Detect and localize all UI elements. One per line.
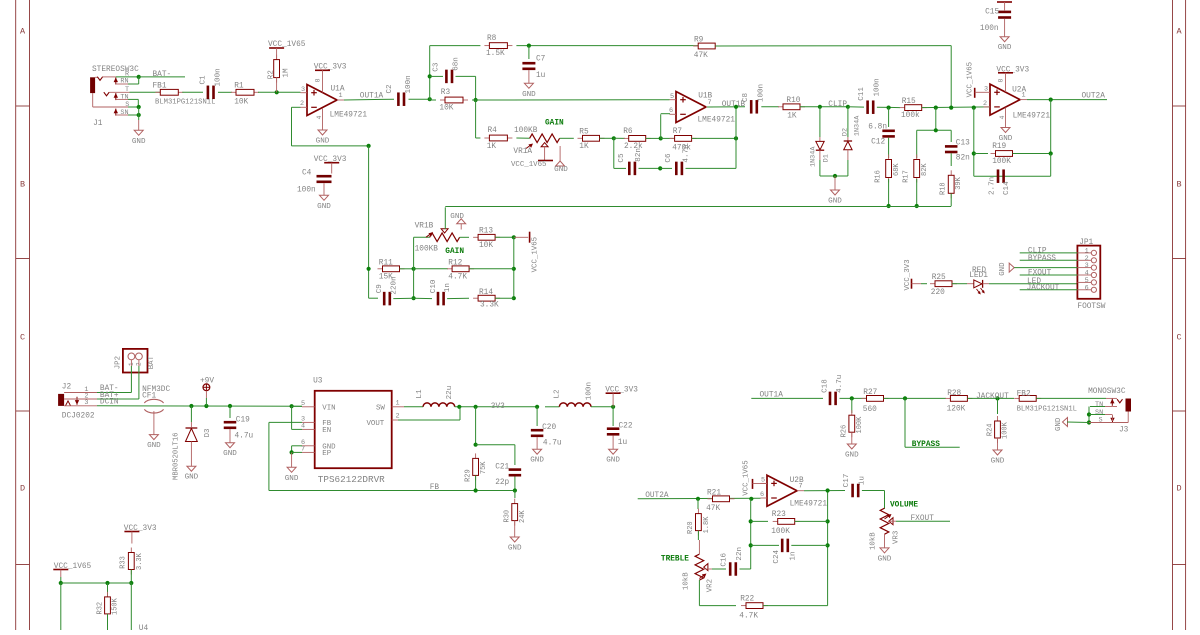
svg-text:3: 3 <box>84 399 88 407</box>
svg-text:R33: R33 <box>119 556 127 569</box>
svg-text:SN: SN <box>120 109 128 117</box>
svg-text:1u: 1u <box>859 476 867 485</box>
svg-text:STEREOSW3C: STEREOSW3C <box>92 66 139 74</box>
svg-text:3.3K: 3.3K <box>480 302 499 310</box>
svg-text:C8: C8 <box>742 93 750 103</box>
svg-text:D2: D2 <box>842 128 850 136</box>
svg-text:OUT2A: OUT2A <box>645 492 669 500</box>
svg-text:100K: 100K <box>1002 421 1010 439</box>
svg-text:100k: 100k <box>901 112 920 120</box>
svg-text:100KB: 100KB <box>415 246 439 254</box>
svg-text:GND: GND <box>132 138 146 146</box>
svg-text:JACKOUT: JACKOUT <box>1027 284 1060 292</box>
svg-text:LME49721: LME49721 <box>790 501 828 509</box>
svg-text:R8: R8 <box>487 35 497 43</box>
svg-text:560: 560 <box>863 406 877 414</box>
svg-text:R16: R16 <box>874 170 882 183</box>
svg-text:R27: R27 <box>863 389 877 397</box>
svg-text:U2A: U2A <box>1012 87 1026 95</box>
svg-text:1N34A: 1N34A <box>810 146 818 167</box>
svg-text:FXOUT: FXOUT <box>1028 270 1052 278</box>
svg-text:82n: 82n <box>956 154 970 162</box>
svg-text:GND: GND <box>845 452 859 460</box>
svg-text:2.7n: 2.7n <box>988 177 996 195</box>
svg-text:VCC_1V65: VCC_1V65 <box>967 62 975 97</box>
svg-text:LME49721: LME49721 <box>330 111 368 119</box>
svg-text:GND: GND <box>999 135 1013 143</box>
svg-text:100n: 100n <box>405 75 413 93</box>
svg-text:C: C <box>20 333 25 343</box>
svg-text:1.5K: 1.5K <box>486 50 505 58</box>
svg-text:C11: C11 <box>858 87 866 101</box>
svg-text:R22: R22 <box>740 595 754 603</box>
svg-text:R4: R4 <box>488 127 498 135</box>
svg-text:R15: R15 <box>902 98 916 106</box>
svg-text:A: A <box>20 27 26 37</box>
svg-text:100n: 100n <box>215 68 223 86</box>
svg-text:U2B: U2B <box>790 477 804 485</box>
svg-text:LED1: LED1 <box>969 272 988 280</box>
svg-text:R2: R2 <box>268 70 276 80</box>
svg-text:10kB: 10kB <box>870 532 878 550</box>
svg-text:GAIN: GAIN <box>445 248 464 256</box>
svg-text:22n: 22n <box>736 547 744 561</box>
svg-text:FB: FB <box>430 484 440 492</box>
svg-text:C4: C4 <box>302 169 312 177</box>
svg-text:BYPASS: BYPASS <box>912 441 940 449</box>
svg-text:FB2: FB2 <box>1017 391 1031 399</box>
svg-text:JP2: JP2 <box>115 356 123 369</box>
svg-text:4.7K: 4.7K <box>448 273 467 281</box>
svg-text:8: 8 <box>315 78 322 82</box>
svg-text:R18: R18 <box>940 182 948 195</box>
svg-text:GND: GND <box>1055 417 1063 431</box>
svg-text:U1B: U1B <box>698 92 712 100</box>
svg-text:10K: 10K <box>234 98 248 106</box>
svg-text:VCC_1V65: VCC_1V65 <box>511 161 546 169</box>
svg-text:GND: GND <box>316 138 330 146</box>
svg-text:GAIN: GAIN <box>545 119 564 127</box>
svg-text:R25: R25 <box>932 274 946 282</box>
svg-text:6.8n: 6.8n <box>868 124 887 132</box>
svg-text:U3: U3 <box>313 377 323 385</box>
svg-text:C21: C21 <box>495 463 509 471</box>
svg-text:C13: C13 <box>956 140 970 148</box>
svg-text:1.8K: 1.8K <box>703 516 711 534</box>
svg-text:GND: GND <box>147 442 161 450</box>
svg-text:R17: R17 <box>902 170 910 183</box>
svg-text:GND: GND <box>223 450 237 458</box>
svg-text:BAT-: BAT- <box>153 71 172 79</box>
svg-text:R6: R6 <box>623 128 633 136</box>
svg-text:100n: 100n <box>874 78 882 96</box>
svg-text:D: D <box>1176 484 1181 494</box>
svg-text:L1: L1 <box>416 389 424 399</box>
svg-text:1u: 1u <box>536 72 546 80</box>
svg-text:1K: 1K <box>487 143 497 151</box>
svg-text:R7: R7 <box>673 128 683 136</box>
svg-text:C1: C1 <box>200 75 208 85</box>
svg-text:FB1: FB1 <box>153 83 167 91</box>
svg-text:D1: D1 <box>823 154 831 162</box>
svg-text:BYPASS: BYPASS <box>1028 255 1056 263</box>
svg-text:8: 8 <box>998 79 1005 83</box>
svg-text:VCC_1V65: VCC_1V65 <box>532 237 540 272</box>
svg-text:LME49721: LME49721 <box>698 117 736 125</box>
svg-text:VCC_3V3: VCC_3V3 <box>904 259 912 290</box>
svg-text:VOLUME: VOLUME <box>890 501 918 509</box>
svg-text:FXOUT: FXOUT <box>911 515 935 523</box>
svg-text:68K: 68K <box>893 163 901 176</box>
svg-text:C6: C6 <box>665 153 673 163</box>
svg-text:220: 220 <box>931 289 945 297</box>
svg-text:100KB: 100KB <box>514 127 538 135</box>
svg-text:10kB: 10kB <box>682 572 690 590</box>
svg-text:DCIN: DCIN <box>100 399 119 407</box>
svg-text:220n: 220n <box>390 276 398 294</box>
svg-text:C14: C14 <box>1003 181 1011 195</box>
svg-text:VR2: VR2 <box>707 579 715 592</box>
svg-text:22p: 22p <box>495 479 509 487</box>
svg-text:75K: 75K <box>480 461 488 474</box>
svg-text:U4: U4 <box>139 625 149 630</box>
svg-text:C: C <box>1176 333 1181 343</box>
svg-text:C15: C15 <box>985 9 999 17</box>
svg-text:4: 4 <box>999 116 1006 120</box>
svg-text:R28: R28 <box>947 390 961 398</box>
svg-text:C20: C20 <box>542 424 556 432</box>
svg-text:C19: C19 <box>236 417 250 425</box>
svg-text:GND: GND <box>317 203 331 211</box>
svg-text:OUT2A: OUT2A <box>1082 93 1106 101</box>
svg-text:100n: 100n <box>586 382 594 400</box>
svg-text:C10: C10 <box>430 279 438 293</box>
svg-text:SW: SW <box>376 404 385 412</box>
svg-text:R9: R9 <box>694 36 704 44</box>
svg-text:GND: GND <box>508 545 522 553</box>
svg-text:1n: 1n <box>444 283 452 292</box>
svg-text:6: 6 <box>760 491 764 499</box>
svg-text:2: 2 <box>396 413 400 421</box>
svg-text:R26: R26 <box>841 425 849 438</box>
svg-text:5: 5 <box>670 93 674 101</box>
svg-text:CLIP: CLIP <box>828 101 847 109</box>
svg-text:100n: 100n <box>757 84 765 102</box>
svg-text:100n: 100n <box>980 25 999 33</box>
svg-text:1M: 1M <box>283 68 291 78</box>
svg-text:MONOSW3C: MONOSW3C <box>1088 388 1126 396</box>
svg-text:3: 3 <box>984 86 988 94</box>
svg-text:VCC_1V65: VCC_1V65 <box>743 460 751 495</box>
svg-text:1K: 1K <box>787 112 797 120</box>
svg-text:FOOTSW: FOOTSW <box>1077 303 1105 311</box>
svg-text:GND: GND <box>828 198 842 206</box>
svg-text:C3: C3 <box>433 62 441 72</box>
svg-text:S: S <box>1099 416 1103 424</box>
svg-text:1N34A: 1N34A <box>853 115 861 136</box>
svg-text:A: A <box>1176 27 1182 37</box>
svg-text:R29: R29 <box>465 469 473 482</box>
svg-text:R23: R23 <box>772 511 786 519</box>
svg-text:BLM31PG121SN1L: BLM31PG121SN1L <box>1017 406 1077 414</box>
svg-text:TN: TN <box>1095 401 1103 409</box>
svg-text:10K: 10K <box>479 242 493 250</box>
svg-text:EN: EN <box>322 427 331 435</box>
svg-text:120K: 120K <box>947 406 966 414</box>
svg-text:82K: 82K <box>921 163 929 176</box>
svg-text:R13: R13 <box>479 228 493 236</box>
svg-text:39K: 39K <box>955 176 963 189</box>
svg-text:GND: GND <box>530 457 544 465</box>
svg-text:OUT1A: OUT1A <box>360 92 384 100</box>
svg-text:3V3: 3V3 <box>491 403 505 411</box>
svg-text:D3: D3 <box>204 429 212 438</box>
svg-text:DCJ0202: DCJ0202 <box>62 413 95 421</box>
svg-text:4.7u: 4.7u <box>543 440 562 448</box>
svg-text:B: B <box>1176 180 1181 190</box>
svg-text:C18: C18 <box>822 379 830 393</box>
svg-text:GND: GND <box>554 166 568 174</box>
svg-text:10K: 10K <box>439 105 453 113</box>
svg-text:100n: 100n <box>297 186 316 194</box>
svg-text:R3: R3 <box>441 89 451 97</box>
svg-text:R32: R32 <box>96 602 104 615</box>
svg-text:R1: R1 <box>234 83 244 91</box>
svg-text:1K: 1K <box>579 143 589 151</box>
svg-text:GND: GND <box>285 475 299 483</box>
svg-text:GND: GND <box>185 474 199 482</box>
svg-text:100K: 100K <box>992 158 1011 166</box>
svg-text:OUT1A: OUT1A <box>760 392 784 400</box>
svg-text:68n: 68n <box>453 57 461 71</box>
svg-text:MBR0520LT16: MBR0520LT16 <box>173 433 181 480</box>
svg-text:J3: J3 <box>1119 427 1129 435</box>
svg-text:4: 4 <box>316 116 323 120</box>
svg-text:U1A: U1A <box>331 86 345 94</box>
svg-text:GND: GND <box>606 457 620 465</box>
svg-text:VIN: VIN <box>322 404 335 412</box>
svg-text:J2: J2 <box>62 383 72 391</box>
svg-text:1: 1 <box>396 399 400 407</box>
svg-text:R14: R14 <box>479 289 493 297</box>
svg-text:D: D <box>20 484 25 494</box>
svg-text:GND: GND <box>999 262 1007 276</box>
svg-text:R10: R10 <box>786 97 800 105</box>
svg-text:4.7K: 4.7K <box>739 612 758 620</box>
svg-text:150K: 150K <box>112 597 120 615</box>
svg-text:47K: 47K <box>694 52 708 60</box>
svg-text:JACKOUT: JACKOUT <box>976 393 1009 401</box>
svg-text:VR3: VR3 <box>892 531 900 544</box>
svg-text:82n: 82n <box>635 148 643 162</box>
svg-text:EP: EP <box>322 450 331 458</box>
svg-text:TPS62122DRVR: TPS62122DRVR <box>318 474 385 485</box>
svg-text:GND: GND <box>878 555 892 563</box>
svg-text:VOUT: VOUT <box>367 420 385 428</box>
svg-text:1u: 1u <box>618 439 628 447</box>
svg-text:100K: 100K <box>856 416 864 434</box>
svg-text:BAT: BAT <box>148 355 156 369</box>
svg-text:JP1: JP1 <box>1079 239 1093 247</box>
svg-text:J1: J1 <box>93 120 103 128</box>
svg-text:C5: C5 <box>618 153 626 163</box>
svg-text:C16: C16 <box>721 552 729 566</box>
svg-text:BLM31PG121SN1L: BLM31PG121SN1L <box>155 99 215 107</box>
svg-text:VR1B: VR1B <box>415 223 434 231</box>
svg-text:R11: R11 <box>379 259 393 267</box>
svg-text:C22: C22 <box>619 422 633 430</box>
svg-text:VR1A: VR1A <box>513 148 532 156</box>
svg-text:1n: 1n <box>790 551 798 560</box>
svg-text:B: B <box>20 180 25 190</box>
svg-text:2: 2 <box>983 100 987 108</box>
svg-text:R12: R12 <box>448 259 462 267</box>
svg-text:C12: C12 <box>871 139 885 147</box>
svg-text:4.7u: 4.7u <box>235 432 254 440</box>
svg-text:C9: C9 <box>376 284 384 294</box>
svg-text:R19: R19 <box>992 143 1006 151</box>
svg-text:GND: GND <box>522 91 536 99</box>
svg-text:C7: C7 <box>536 56 546 64</box>
svg-text:C24: C24 <box>773 549 781 563</box>
svg-text:22u: 22u <box>446 386 454 400</box>
svg-text:4.7n: 4.7n <box>682 144 690 162</box>
svg-text:RN: RN <box>120 78 128 86</box>
svg-text:6: 6 <box>1085 284 1089 292</box>
svg-text:L2: L2 <box>553 389 561 399</box>
svg-text:24K: 24K <box>519 510 527 523</box>
svg-text:+9V: +9V <box>200 378 214 386</box>
svg-text:2: 2 <box>300 100 304 108</box>
svg-text:TREBLE: TREBLE <box>661 556 689 564</box>
svg-text:R30: R30 <box>504 510 512 523</box>
svg-text:100K: 100K <box>771 528 790 536</box>
svg-text:LME49721: LME49721 <box>1013 112 1051 120</box>
svg-text:C2: C2 <box>386 84 394 94</box>
svg-text:R24: R24 <box>987 423 995 436</box>
svg-text:4.7u: 4.7u <box>836 375 844 393</box>
svg-text:R21: R21 <box>707 489 721 497</box>
svg-text:3.3K: 3.3K <box>136 552 144 570</box>
svg-text:GND: GND <box>991 458 1005 466</box>
svg-text:47K: 47K <box>706 505 720 513</box>
svg-text:3: 3 <box>301 86 305 94</box>
svg-text:GND: GND <box>998 44 1012 52</box>
svg-text:R20: R20 <box>687 521 695 534</box>
svg-text:C17: C17 <box>843 474 851 488</box>
svg-text:R5: R5 <box>579 128 589 136</box>
